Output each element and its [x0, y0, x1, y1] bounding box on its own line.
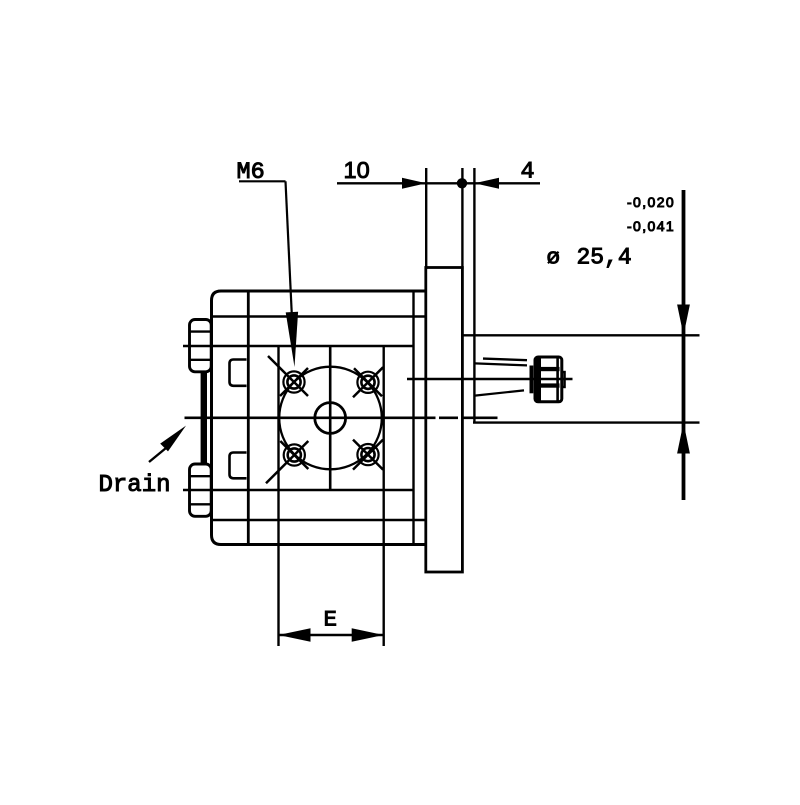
shaft key top line [483, 359, 527, 361]
dim E left arrow [279, 628, 311, 642]
pilot boss bottom edge / dia extension line [473, 421, 700, 423]
svg-text:4: 4 [521, 159, 535, 186]
dim line 10 and 4 [337, 182, 540, 184]
svg-text:E: E [324, 607, 338, 633]
shaft tip beyond nut [562, 372, 565, 387]
mounting hole upper-right [353, 367, 383, 397]
dia 25.4 lower arrow [677, 423, 690, 454]
mounting hole M6 upper-left [268, 356, 308, 396]
arrow for dim 4 [474, 178, 499, 189]
svg-text:25,4: 25,4 [577, 245, 632, 271]
mounting hole lower-left [266, 441, 308, 483]
pilot boss top edge / dia extension line [462, 334, 699, 336]
shaft taper top edge [475, 363, 527, 365]
bolt circle [279, 367, 382, 470]
rear bolt lower head [190, 464, 212, 516]
mounting hole lower-right [353, 440, 383, 470]
port square right line / E extension line [383, 347, 385, 647]
dot terminator for dim 10/4 [457, 178, 467, 188]
svg-text:-0,041: -0,041 [627, 218, 675, 234]
svg-text:10: 10 [344, 157, 370, 183]
upper bolt axis line [183, 345, 414, 347]
body front section joint line [412, 291, 414, 545]
port square left line / E extension line [277, 347, 279, 647]
shaft nut (castellated) [535, 357, 562, 402]
pump body outline (rear cover + main body, rounded left corners) [212, 291, 427, 545]
body upper step line [212, 315, 426, 318]
shaft taper bottom edge [475, 390, 524, 395]
svg-text:ø: ø [547, 245, 561, 271]
svg-text:-0,020: -0,020 [627, 194, 675, 210]
drain port upper [230, 360, 247, 386]
horizontal centerline of mounting face [185, 416, 498, 419]
rear cover / body joint line [247, 291, 250, 545]
dia 25.4 upper arrow [677, 305, 690, 336]
dim E right arrow [352, 628, 384, 642]
M6 leader line [239, 181, 293, 340]
rear cover seal strip between bolts [201, 371, 207, 465]
Drain leader line [149, 448, 166, 462]
drain port lower [230, 453, 247, 479]
lower bolt axis line [183, 489, 414, 491]
dim E line [279, 634, 384, 637]
rear bolt upper head [190, 320, 212, 372]
dim extension line (flange front face) [461, 168, 463, 269]
shaft centerline [407, 378, 573, 380]
dim 10 extension line (flange rear face) [425, 168, 427, 269]
M6 leader arrowhead [286, 312, 298, 367]
center bore circle [315, 403, 346, 434]
body lower step line [212, 519, 426, 522]
dia 25.4 dimension line vertical [682, 190, 686, 500]
arrow for dim 10 [402, 178, 426, 189]
shaft thread stub [530, 366, 534, 394]
svg-text:Drain: Drain [99, 472, 171, 499]
pilot boss front face / dim extension line [473, 168, 475, 423]
label dia 25,4 [547, 245, 632, 271]
mounting flange plate [426, 268, 463, 573]
vertical centerline of mounting face [329, 347, 332, 490]
Drain arrowhead [160, 426, 186, 452]
